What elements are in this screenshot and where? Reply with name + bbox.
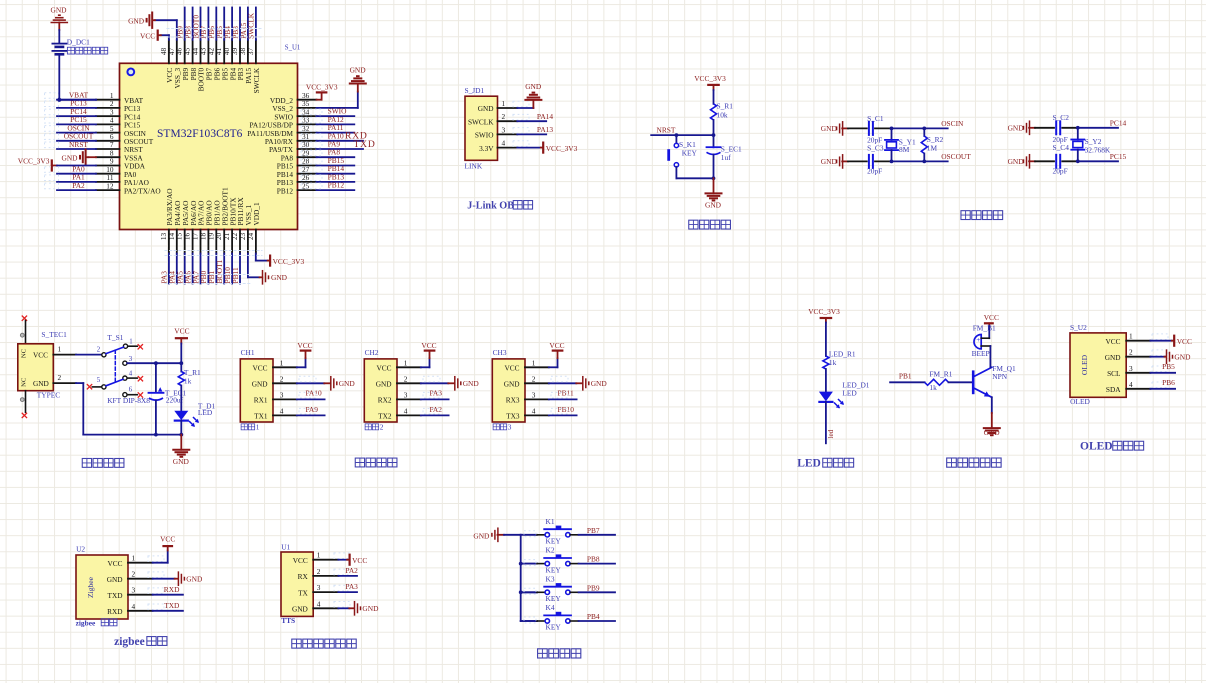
svg-text:OSCIN: OSCIN	[941, 119, 964, 128]
svg-text:LED: LED	[842, 388, 857, 397]
svg-text:KEY: KEY	[546, 565, 562, 574]
svg-text:KEY: KEY	[682, 149, 698, 158]
svg-text:PB10: PB10	[558, 405, 575, 414]
svg-text:VCC: VCC	[352, 556, 367, 565]
svg-text:VCC: VCC	[376, 364, 391, 373]
svg-text:KEY: KEY	[546, 594, 562, 603]
svg-text:J-Link OB: J-Link OB	[467, 201, 514, 212]
svg-text:2: 2	[97, 347, 101, 354]
svg-text:D_DC1: D_DC1	[67, 37, 90, 46]
svg-text:PB1: PB1	[899, 371, 912, 380]
svg-text:VCC_3V3: VCC_3V3	[273, 257, 305, 266]
svg-text:K1: K1	[546, 517, 555, 526]
svg-text:S_R1: S_R1	[717, 102, 734, 111]
svg-text:GND: GND	[173, 457, 190, 466]
svg-text:S_R2: S_R2	[927, 135, 944, 144]
svg-text:1M: 1M	[927, 144, 938, 153]
svg-text:GND: GND	[463, 379, 480, 388]
svg-text:CH1: CH1	[241, 348, 255, 357]
svg-text:VCC: VCC	[33, 351, 48, 360]
svg-text:2: 2	[317, 567, 321, 576]
svg-text:5: 5	[97, 377, 101, 384]
svg-text:4: 4	[1129, 380, 1133, 389]
svg-text:2: 2	[1129, 348, 1133, 357]
svg-text:RX3: RX3	[506, 396, 520, 405]
svg-text:VCC: VCC	[1105, 337, 1120, 346]
svg-text:PB5: PB5	[1162, 362, 1175, 371]
svg-text:4: 4	[129, 370, 133, 377]
svg-text:PC15: PC15	[1110, 152, 1127, 161]
svg-text:1k: 1k	[929, 383, 937, 392]
svg-text:NC: NC	[20, 348, 27, 358]
svg-text:PA13: PA13	[537, 125, 553, 134]
svg-text:PC14: PC14	[1110, 118, 1127, 127]
svg-text:RXD: RXD	[107, 607, 122, 616]
svg-text:GND: GND	[1174, 353, 1191, 362]
svg-text:TXD: TXD	[354, 139, 376, 150]
svg-text:OLED: OLED	[1070, 397, 1090, 406]
svg-text:GND: GND	[128, 17, 145, 26]
svg-text:GND: GND	[591, 379, 608, 388]
svg-text:GND: GND	[821, 157, 838, 166]
svg-text:3: 3	[129, 356, 133, 363]
svg-text:U1: U1	[281, 542, 290, 551]
svg-text:SDA: SDA	[1106, 385, 1121, 394]
svg-text:24: 24	[246, 233, 255, 241]
svg-text:1k: 1k	[829, 358, 837, 367]
svg-text:GND: GND	[478, 104, 494, 113]
svg-text:PB9: PB9	[587, 583, 600, 592]
svg-text:SWIO: SWIO	[475, 131, 494, 140]
svg-text:4: 4	[404, 406, 408, 415]
svg-text:PA14: PA14	[537, 112, 553, 121]
svg-text:PB6: PB6	[1162, 378, 1175, 387]
svg-text:GND: GND	[50, 6, 67, 15]
svg-text:VCC: VCC	[293, 556, 308, 565]
svg-text:PA2: PA2	[72, 181, 85, 190]
svg-text:CH2: CH2	[365, 348, 379, 357]
svg-text:3: 3	[317, 583, 321, 592]
svg-text:VDD_1: VDD_1	[252, 202, 261, 225]
svg-text:OLED: OLED	[1080, 354, 1089, 375]
svg-text:PA2: PA2	[345, 566, 358, 575]
svg-text:GND: GND	[107, 575, 123, 584]
svg-text:VCC_3V3: VCC_3V3	[18, 156, 50, 165]
svg-text:TXD: TXD	[164, 601, 180, 610]
svg-text:PB11: PB11	[231, 267, 240, 283]
svg-text:37: 37	[246, 48, 255, 56]
svg-text:PA10: PA10	[306, 389, 322, 398]
svg-text:VCC: VCC	[984, 313, 999, 322]
svg-text:FM_R1: FM_R1	[929, 369, 952, 378]
svg-text:12: 12	[106, 181, 114, 190]
svg-text:zigbee: zigbee	[76, 618, 96, 627]
svg-text:GND: GND	[821, 124, 838, 133]
svg-text:GND: GND	[362, 604, 379, 613]
svg-text:1uf: 1uf	[721, 153, 731, 162]
svg-text:VCC_3V3: VCC_3V3	[808, 307, 840, 316]
svg-text:VCC: VCC	[174, 327, 189, 336]
svg-text:2: 2	[132, 570, 136, 579]
svg-text:1: 1	[404, 358, 408, 367]
svg-text:S_U2: S_U2	[1070, 323, 1087, 332]
svg-text:OLED: OLED	[1080, 441, 1113, 453]
svg-text:VCC: VCC	[504, 364, 519, 373]
svg-text:GND: GND	[1008, 157, 1025, 166]
svg-text:1: 1	[132, 554, 136, 563]
svg-text:KFT DIP-8X8: KFT DIP-8X8	[107, 396, 150, 405]
svg-text:6: 6	[129, 387, 133, 394]
svg-text:S_C2: S_C2	[1053, 113, 1070, 122]
svg-text:S_C3: S_C3	[867, 144, 884, 153]
svg-text:KEY: KEY	[546, 537, 562, 546]
svg-text:LED: LED	[198, 408, 213, 417]
svg-text:BEEP: BEEP	[972, 349, 990, 358]
svg-text:4: 4	[532, 406, 536, 415]
svg-text:NRST: NRST	[657, 125, 676, 134]
svg-text:1: 1	[1129, 332, 1133, 341]
svg-text:TX2: TX2	[378, 412, 392, 421]
svg-text:3: 3	[132, 586, 136, 595]
svg-text:VCC: VCC	[107, 559, 122, 568]
svg-text:+: +	[976, 336, 980, 344]
svg-text:S_TEC1: S_TEC1	[41, 330, 67, 339]
svg-text:4: 4	[317, 599, 321, 608]
svg-text:3.3V: 3.3V	[479, 144, 494, 153]
svg-text:3: 3	[502, 125, 506, 134]
svg-text:VCC: VCC	[252, 364, 267, 373]
svg-text:RXD: RXD	[164, 585, 180, 594]
svg-text:32.768K: 32.768K	[1085, 145, 1111, 154]
svg-text:TX: TX	[298, 588, 308, 597]
svg-text:PA2: PA2	[430, 405, 443, 414]
svg-text:GND: GND	[525, 82, 542, 91]
svg-text:GND: GND	[473, 531, 490, 540]
svg-text:VCC: VCC	[1177, 337, 1192, 346]
svg-text:PB7: PB7	[587, 526, 600, 535]
svg-text:GND: GND	[350, 66, 367, 75]
svg-text:VCC_3V3: VCC_3V3	[546, 144, 578, 153]
svg-text:2: 2	[532, 374, 536, 383]
svg-text:PB12: PB12	[328, 181, 345, 190]
svg-text:GND: GND	[271, 273, 288, 282]
svg-text:PA2/TX/AO: PA2/TX/AO	[124, 186, 161, 195]
svg-text:20pF: 20pF	[867, 167, 882, 176]
svg-text:GND: GND	[376, 380, 392, 389]
svg-text:4: 4	[132, 602, 136, 611]
svg-text:LED: LED	[797, 458, 821, 470]
svg-text:2: 2	[380, 423, 384, 432]
svg-text:S_EC1: S_EC1	[721, 144, 742, 153]
svg-text:1k: 1k	[184, 377, 192, 386]
svg-text:RX: RX	[298, 572, 309, 581]
svg-text:OSCOUT: OSCOUT	[941, 152, 971, 161]
svg-text:2: 2	[404, 374, 408, 383]
svg-text:PB4: PB4	[587, 612, 600, 621]
svg-text:SCL: SCL	[1107, 369, 1121, 378]
svg-text:K3: K3	[546, 574, 555, 583]
svg-text:PB12: PB12	[277, 186, 294, 195]
svg-text:VCC_3V3: VCC_3V3	[694, 74, 726, 83]
svg-text:4: 4	[280, 406, 284, 415]
svg-text:NRST: NRST	[69, 140, 88, 149]
svg-text:RX1: RX1	[254, 396, 268, 405]
svg-text:PA3: PA3	[345, 582, 358, 591]
svg-text:VCC_3V3: VCC_3V3	[306, 82, 338, 91]
svg-text:PB8: PB8	[587, 555, 600, 564]
svg-text:4: 4	[502, 139, 506, 148]
svg-text:1: 1	[317, 551, 321, 560]
svg-text:RX2: RX2	[378, 396, 392, 405]
svg-text:SWCLK: SWCLK	[252, 67, 261, 93]
svg-text:GND: GND	[292, 605, 308, 614]
svg-text:GND: GND	[984, 428, 1001, 437]
svg-text:3: 3	[404, 390, 408, 399]
svg-text:PA9: PA9	[306, 405, 319, 414]
svg-text:PB11: PB11	[558, 389, 574, 398]
svg-text:S_C1: S_C1	[867, 114, 884, 123]
svg-text:2: 2	[502, 112, 506, 121]
svg-text:GND: GND	[1105, 353, 1121, 362]
svg-text:GND: GND	[61, 154, 78, 163]
svg-text:VCC: VCC	[421, 341, 436, 350]
svg-text:TX1: TX1	[254, 412, 268, 421]
svg-text:1: 1	[58, 345, 62, 354]
svg-text:3: 3	[1129, 364, 1133, 373]
svg-text:VCC: VCC	[549, 341, 564, 350]
svg-text:GND: GND	[1008, 124, 1025, 133]
svg-text:T_S1: T_S1	[107, 333, 123, 342]
svg-text:TYPEC: TYPEC	[37, 391, 60, 400]
svg-text:10k: 10k	[717, 111, 728, 120]
svg-text:8M: 8M	[899, 145, 910, 154]
svg-text:TX3: TX3	[506, 412, 520, 421]
svg-text:GND: GND	[186, 575, 203, 584]
svg-text:1: 1	[280, 358, 284, 367]
svg-text:1: 1	[256, 423, 260, 432]
svg-text:TTS: TTS	[281, 616, 295, 625]
svg-text:S_U1: S_U1	[285, 45, 301, 52]
svg-text:GND: GND	[252, 380, 268, 389]
svg-text:S_C4: S_C4	[1053, 143, 1070, 152]
svg-text:2: 2	[280, 374, 284, 383]
svg-text:SWCLK: SWCLK	[247, 12, 256, 39]
svg-text:zigbee: zigbee	[114, 636, 145, 648]
svg-text:TXD: TXD	[108, 591, 123, 600]
svg-text:GND: GND	[33, 379, 49, 388]
svg-text:NPN: NPN	[992, 372, 1007, 381]
svg-text:VCC: VCC	[297, 341, 312, 350]
svg-text:2: 2	[58, 373, 62, 382]
svg-text:GND: GND	[705, 201, 722, 210]
svg-text:1: 1	[129, 339, 132, 346]
svg-text:KEY: KEY	[546, 623, 562, 632]
svg-text:CH3: CH3	[493, 348, 507, 357]
svg-text:U2: U2	[76, 545, 85, 554]
svg-text:K4: K4	[546, 603, 555, 612]
svg-text:1: 1	[532, 358, 536, 367]
svg-text:FM_B1: FM_B1	[973, 324, 996, 333]
svg-text:1: 1	[502, 99, 506, 108]
svg-text:3: 3	[508, 423, 512, 432]
svg-text:K2: K2	[546, 546, 555, 555]
svg-text:3: 3	[532, 390, 536, 399]
svg-text:PA3: PA3	[430, 389, 443, 398]
svg-text:3: 3	[280, 390, 284, 399]
svg-text:SWCLK: SWCLK	[468, 117, 494, 126]
svg-text:Zigbee: Zigbee	[86, 576, 95, 598]
svg-text:S_JD1: S_JD1	[465, 86, 485, 95]
svg-text:20pF: 20pF	[1053, 167, 1068, 176]
svg-text:GND: GND	[504, 380, 520, 389]
svg-text:VCC: VCC	[160, 535, 175, 544]
svg-text:NC: NC	[20, 377, 27, 387]
svg-text:led: led	[827, 429, 835, 438]
svg-text:VCC: VCC	[140, 31, 155, 40]
svg-text:LINK: LINK	[465, 161, 483, 170]
svg-text:STM32F103C8T6: STM32F103C8T6	[157, 128, 243, 140]
svg-text:GND: GND	[339, 379, 356, 388]
